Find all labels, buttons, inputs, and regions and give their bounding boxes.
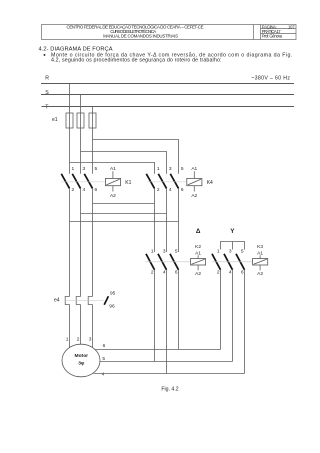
svg-text:6: 6 [95, 187, 98, 193]
bus S [41, 94, 294, 96]
svg-text:2: 2 [72, 187, 75, 193]
svg-text:A2: A2 [110, 193, 116, 199]
svg-text:A1: A1 [191, 166, 197, 172]
wire branch T to K4 contact 5 [93, 140, 179, 174]
fuse e1 phase S [77, 113, 84, 128]
K3 linkage dashed [212, 261, 253, 263]
header left cell text [67, 24, 204, 38]
coil K4 [187, 166, 213, 199]
wire S drop to fuse [80, 95, 82, 114]
coil K3 [253, 244, 268, 277]
svg-text:e1: e1 [52, 117, 58, 123]
svg-text:e4: e4 [54, 297, 60, 303]
svg-text:A2: A2 [195, 271, 201, 277]
bus R [41, 83, 294, 85]
fuse e1 phase R [66, 113, 73, 128]
wire T drop to fuse [92, 107, 94, 114]
svg-text:2: 2 [157, 187, 160, 193]
svg-text:R: R [45, 76, 49, 82]
wire K2 out 2 to line 5 [154, 270, 156, 362]
svg-text:6: 6 [181, 187, 184, 193]
svg-text:K3: K3 [257, 244, 263, 250]
svg-text:96: 96 [109, 304, 115, 310]
wire K2 out 6 to line 6 [178, 270, 180, 350]
svg-text:Y: Y [230, 228, 235, 235]
svg-text:4: 4 [83, 187, 86, 193]
svg-text:4: 4 [169, 187, 172, 193]
svg-text:Prof. Gênova: Prof. Gênova [262, 34, 283, 39]
svg-text:1: 1 [157, 166, 160, 172]
overload e4 element phase S [76, 297, 80, 305]
rung S out to K4 out 4 [81, 213, 167, 215]
wire K4 out 6 down to K2 contact 5 [178, 188, 180, 252]
rung R out to K4 out 6 [70, 221, 179, 223]
svg-text:3: 3 [169, 166, 172, 172]
K3 star bridge [221, 242, 245, 250]
motor line 6 [95, 349, 220, 351]
svg-text:1: 1 [217, 248, 220, 254]
wire K2 out 4 to line 4 [166, 270, 168, 374]
svg-text:T: T [45, 104, 49, 110]
bus T [42, 106, 295, 108]
wire branch S to K4 contact 3 [81, 152, 167, 174]
overload e4 element phase T [88, 297, 92, 305]
e4 linkage dashed [65, 300, 104, 302]
svg-text:~380V – 60 Hz: ~380V – 60 Hz [251, 75, 290, 81]
svg-text:K1: K1 [125, 180, 131, 186]
rung T out to K4 out 2 [93, 203, 155, 205]
svg-text:4.2, seguindo os procedimentos: 4.2, seguindo os procedimentos de segura… [51, 57, 222, 63]
wire K4 out 4 down to K2 contact 3 [166, 188, 168, 252]
wire e4 to motor terminal 2 [80, 305, 82, 345]
svg-text:2: 2 [217, 270, 220, 276]
wire K3 out 4 to line 5 [232, 270, 234, 362]
motor line 4 [94, 373, 245, 375]
wire K1 out 2 down to e4 [69, 188, 71, 296]
svg-text:3: 3 [83, 166, 86, 172]
coil K1 [105, 166, 131, 199]
bullet [44, 54, 46, 56]
wire e4 to motor terminal 1 [69, 305, 71, 348]
svg-text:6: 6 [175, 270, 178, 276]
svg-text:2: 2 [77, 337, 80, 343]
K2 linkage dashed [146, 261, 191, 263]
svg-text:Fig. 4.2: Fig. 4.2 [161, 386, 178, 392]
svg-text:1: 1 [72, 166, 75, 172]
wire phase S fuse to K1 contact 3 [80, 128, 82, 174]
svg-text:A1: A1 [110, 166, 116, 172]
svg-text:4: 4 [102, 371, 105, 377]
svg-text:2: 2 [151, 270, 154, 276]
svg-text:MANUAL DE COMANDOS INDUSTRIAIS: MANUAL DE COMANDOS INDUSTRIAIS [103, 34, 178, 39]
wire K3 out 2 to line 6 [220, 270, 222, 350]
K4 linkage dashed [148, 181, 187, 183]
wire K4 out 2 down to K2 contact 1 [154, 188, 156, 252]
svg-text:5: 5 [181, 166, 184, 172]
svg-text:5: 5 [241, 248, 244, 254]
svg-text:K4: K4 [207, 180, 213, 186]
svg-text:3φ: 3φ [78, 361, 85, 367]
wire K1 out 6 down to e4 [92, 188, 94, 296]
K3 star bridge middle stub [232, 242, 234, 250]
svg-text:A2: A2 [257, 271, 263, 277]
motor M1 [62, 344, 100, 377]
svg-text:K2: K2 [195, 244, 201, 250]
svg-text:95: 95 [110, 291, 116, 297]
wire R drop to fuse [69, 84, 71, 114]
svg-text:4: 4 [229, 270, 232, 276]
fuse e1 phase T [89, 113, 96, 128]
svg-text:1: 1 [151, 248, 154, 254]
svg-text:A2: A2 [191, 193, 197, 199]
motor line 5 [100, 361, 233, 363]
wire branch R to K4 contact 1 [70, 163, 155, 174]
svg-text:1: 1 [66, 337, 69, 343]
wire K1 out 4 down to e4 [80, 188, 82, 296]
svg-text:107: 107 [288, 24, 295, 29]
coil K2 [191, 244, 206, 277]
svg-text:4: 4 [163, 270, 166, 276]
svg-text:6: 6 [241, 270, 244, 276]
svg-text:3: 3 [89, 337, 92, 343]
wire phase R fuse to K1 contact 1 [69, 128, 71, 174]
e4 NC contact 95-96 [104, 291, 115, 310]
overload e4 element phase R [65, 297, 69, 305]
K1 linkage dashed [61, 181, 105, 183]
wire phase T fuse to K1 contact 5 [92, 128, 94, 174]
svg-text:Δ: Δ [196, 228, 201, 235]
header right cell text [262, 24, 296, 38]
svg-text:5: 5 [95, 166, 98, 172]
wire e4 to motor terminal 3 [92, 305, 94, 348]
svg-text:3: 3 [163, 248, 166, 254]
svg-text:5: 5 [175, 248, 178, 254]
header table frame [42, 25, 297, 40]
wire K3 out 6 to line 4 [244, 270, 246, 374]
svg-text:6: 6 [103, 343, 106, 349]
svg-text:3: 3 [229, 248, 232, 254]
svg-text:Motor: Motor [75, 353, 89, 359]
